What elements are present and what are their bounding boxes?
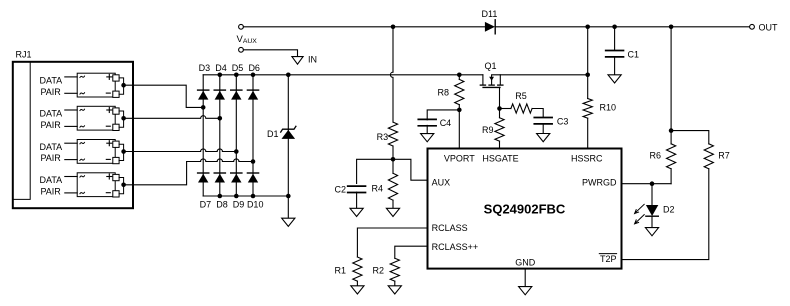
- transformer T2 (data pair 2): [77, 106, 126, 130]
- label D2: [663, 205, 675, 215]
- junction col3 bottom rail: [234, 194, 239, 199]
- wire R3 to AUX node: [392, 146, 394, 159]
- wire C1 to ground: [614, 57, 616, 75]
- wire stubs pair 1: [65, 77, 77, 93]
- terminal V_AUX (lower): [239, 47, 244, 52]
- capacitor C1: [606, 51, 624, 57]
- svg-text:R3: R3: [377, 132, 389, 142]
- wire RCLASS++ pin to R2: [395, 246, 428, 258]
- wire stubs pair 2: [65, 110, 77, 126]
- ground (C3): [537, 134, 550, 142]
- wire Q1 gate down: [499, 87, 501, 108]
- wire R9 to HSGATE pin: [499, 141, 501, 148]
- wire C3 to ground: [542, 124, 544, 134]
- ground (bridge return): [282, 218, 295, 226]
- svg-text:R10: R10: [600, 103, 617, 113]
- wire R6 bottom to PWRGD pin: [622, 169, 672, 184]
- node V_AUX label: [237, 34, 258, 45]
- svg-text:OUT: OUT: [759, 22, 779, 32]
- wire to C4: [427, 110, 459, 120]
- wire R3 column upper: [390, 27, 393, 122]
- wire HSSRC column: [587, 27, 589, 149]
- label D6: [248, 63, 260, 73]
- svg-text:RCLASS: RCLASS: [432, 223, 468, 233]
- wire RCLASS pin to R1: [357, 228, 427, 257]
- label D1: [267, 129, 279, 139]
- label D4: [215, 63, 227, 73]
- svg-text:RJ1: RJ1: [16, 50, 32, 60]
- svg-text:DATA: DATA: [40, 175, 63, 185]
- connector RJ1 box: [13, 62, 133, 208]
- label RJ1: [16, 50, 32, 60]
- svg-text:SQ24902FBC: SQ24902FBC: [484, 202, 566, 217]
- resistor R4: [388, 173, 397, 200]
- diode D6: [247, 90, 258, 100]
- diode D7: [198, 173, 209, 183]
- pin GND: [515, 258, 536, 268]
- label C4: [440, 118, 452, 128]
- wire C1 stem: [614, 27, 616, 51]
- RJ1 inner comb: [14, 63, 30, 200]
- label DATA PAIR 2: [40, 109, 63, 130]
- wire pair2 to bridge column2: [124, 116, 220, 119]
- resistor R6: [667, 131, 676, 169]
- svg-text:PAIR: PAIR: [40, 153, 61, 163]
- transformer T3 (data pair 3): [77, 140, 126, 164]
- svg-text:R9: R9: [482, 125, 494, 135]
- resistor R5: [500, 104, 533, 113]
- svg-text:T2P: T2P: [600, 254, 617, 264]
- wire AUX node to R4: [392, 159, 394, 173]
- wire VAUX rail to D11 anode: [243, 26, 485, 28]
- svg-text:C1: C1: [628, 50, 640, 60]
- wire D2 cathode to ground: [651, 216, 653, 227]
- resistor R9: [495, 109, 504, 142]
- label C3: [557, 117, 569, 127]
- svg-text:D8: D8: [216, 199, 228, 209]
- svg-text:DATA: DATA: [40, 109, 63, 119]
- wire bridge column 3: [235, 75, 237, 196]
- wire AUX node to AUX pin: [393, 159, 428, 180]
- wire bridge bottom rail: [203, 195, 288, 197]
- junction pair4/col4: [251, 159, 256, 164]
- diode D10: [247, 173, 258, 183]
- transformer T4 (data pair 4): [77, 173, 126, 197]
- label R3: [377, 132, 389, 142]
- svg-text:D11: D11: [482, 9, 498, 19]
- wire bridge column 4: [252, 75, 254, 196]
- label R1: [334, 265, 346, 275]
- junction R8/C4/VPORT: [457, 108, 462, 113]
- svg-text:VPORT: VPORT: [444, 153, 475, 163]
- resistor R1: [353, 257, 362, 281]
- svg-text:R7: R7: [718, 150, 730, 160]
- label R7: [718, 150, 730, 160]
- junction col2 top rail: [218, 73, 223, 78]
- transistor Q1: [480, 75, 503, 88]
- wire R8 bottom: [458, 75, 460, 149]
- wire C2 to ground: [356, 192, 358, 208]
- label D3: [199, 63, 211, 73]
- ground (C1): [608, 75, 621, 83]
- diode D9: [231, 173, 242, 183]
- zener diode D1: [281, 126, 296, 139]
- diode D11: [485, 20, 495, 34]
- svg-text:R1: R1: [334, 265, 346, 275]
- svg-text:DATA: DATA: [40, 142, 63, 152]
- label C2: [334, 184, 346, 194]
- pin HSGATE: [482, 153, 518, 163]
- capacitor C3: [534, 118, 552, 124]
- wire bridge column 1: [202, 75, 204, 196]
- wire D1 column: [287, 75, 289, 196]
- pin RCLASS: [432, 223, 468, 233]
- label SQ24902FBC: [484, 202, 566, 217]
- ground (C4): [421, 134, 434, 142]
- wire R5 to C3: [532, 109, 543, 118]
- IC U1 SQ24902FBC box: [428, 149, 622, 269]
- junction R3 top on VAUX rail: [391, 25, 396, 30]
- junction R8 top on IN rail: [457, 73, 462, 78]
- svg-text:PAIR: PAIR: [40, 187, 61, 197]
- pin AUX: [432, 177, 451, 187]
- junction AUX node: [391, 157, 396, 162]
- pin PWRGD: [582, 177, 617, 187]
- wire Q1 drain to HSSRC column: [492, 74, 588, 76]
- svg-text:D2: D2: [663, 205, 675, 215]
- svg-text:D5: D5: [232, 63, 244, 73]
- LED D2 arrows: [635, 204, 645, 224]
- wire IN rail into Q1 source: [482, 75, 484, 85]
- junction col4 top rail: [251, 73, 256, 78]
- net flag IN (arrow): [292, 57, 303, 65]
- svg-text:D3: D3: [199, 63, 211, 73]
- diode D5: [231, 90, 242, 100]
- wire D11 cathode to OUT terminal: [495, 26, 749, 28]
- svg-text:R6: R6: [649, 150, 661, 160]
- ground (R1): [351, 286, 364, 294]
- pin HSSRC: [571, 153, 603, 163]
- junction R6R7 on OUT rail: [669, 25, 674, 30]
- svg-text:VAUX: VAUX: [237, 34, 258, 45]
- resistor R8: [455, 79, 464, 104]
- junction HSSRC column on OUT rail: [585, 25, 590, 30]
- junction C1 on OUT rail: [612, 25, 617, 30]
- label D11: [482, 9, 498, 19]
- svg-text:DATA: DATA: [40, 76, 63, 86]
- label D7: [200, 199, 212, 209]
- wire IN rail (bridge top rail): [203, 74, 483, 76]
- svg-text:PAIR: PAIR: [40, 87, 61, 97]
- wire bridge column 2: [219, 75, 221, 196]
- junction D1 top: [286, 73, 291, 78]
- diode D4: [214, 90, 225, 100]
- svg-text:RCLASS++: RCLASS++: [432, 242, 479, 252]
- label R9: [482, 125, 494, 135]
- svg-text:R4: R4: [371, 184, 383, 194]
- terminal V_AUX (upper): [239, 24, 244, 29]
- label DATA PAIR 4: [40, 175, 63, 196]
- svg-text:Q1: Q1: [485, 61, 497, 71]
- svg-text:R2: R2: [372, 265, 384, 275]
- pin VPORT: [444, 153, 475, 163]
- ground (R2): [388, 286, 401, 294]
- label C1: [628, 50, 640, 60]
- diode D8: [214, 173, 225, 183]
- junction col4 bottom rail: [251, 194, 256, 199]
- wire D2 anode: [651, 184, 653, 205]
- junction col3 top rail: [234, 73, 239, 78]
- svg-text:R5: R5: [515, 91, 527, 101]
- svg-text:GND: GND: [515, 258, 536, 268]
- wire pair1 to bridge column1: [124, 85, 204, 107]
- junction pair2/col2: [218, 116, 223, 121]
- label R4: [371, 184, 383, 194]
- ground (R4): [386, 208, 399, 216]
- label DATA PAIR 3: [40, 142, 63, 163]
- svg-text:IN: IN: [308, 54, 317, 64]
- label R6: [649, 150, 661, 160]
- label R2: [372, 265, 384, 275]
- svg-text:HSSRC: HSSRC: [571, 153, 603, 163]
- wire split to R7 top: [671, 131, 709, 144]
- capacitor C4: [418, 119, 436, 125]
- resistor R3: [388, 122, 397, 146]
- resistor R2: [390, 258, 399, 281]
- transformer T1 (data pair 1): [77, 73, 126, 97]
- diode D3: [198, 90, 209, 100]
- svg-text:D1: D1: [267, 129, 279, 139]
- svg-text:D4: D4: [215, 63, 227, 73]
- LED D2: [646, 205, 658, 216]
- junction pair3/col3: [234, 149, 239, 154]
- terminal OUT: [750, 24, 755, 29]
- label IN: [308, 54, 317, 64]
- label OUT: [759, 22, 779, 32]
- wire C4 to ground: [426, 125, 428, 133]
- svg-text:C4: C4: [440, 118, 452, 128]
- svg-text:C3: C3: [557, 117, 569, 127]
- label R8: [437, 87, 449, 97]
- junction col2 bottom rail: [218, 194, 223, 199]
- wire OUT rail down to R6/R7 split: [670, 27, 672, 131]
- wire R7 bottom to T2P: [622, 169, 709, 260]
- junction pair1/col1: [201, 105, 206, 110]
- resistor R10: [583, 99, 592, 119]
- pin T2P (active low): [599, 254, 616, 264]
- resistor R7: [704, 144, 713, 169]
- label D8: [216, 199, 228, 209]
- wire VAUX lower to IN flag: [243, 50, 297, 57]
- svg-text:C2: C2: [334, 184, 346, 194]
- label Q1: [485, 61, 497, 71]
- wire R1 to ground: [356, 281, 358, 286]
- junction R6/R7 split: [669, 128, 674, 133]
- svg-text:HSGATE: HSGATE: [482, 153, 518, 163]
- svg-text:D6: D6: [248, 63, 260, 73]
- label D9: [233, 199, 245, 209]
- junction gate/R9/R5: [497, 106, 502, 111]
- ground (D2): [645, 228, 658, 236]
- wire R2 to ground: [394, 281, 396, 286]
- junction D2 tap: [650, 181, 655, 186]
- wire to bridge ground: [287, 196, 289, 218]
- svg-text:AUX: AUX: [432, 177, 451, 187]
- wire stubs pair 3: [65, 143, 77, 159]
- label R5: [515, 91, 527, 101]
- svg-text:PWRGD: PWRGD: [582, 177, 617, 187]
- svg-text:D7: D7: [200, 199, 212, 209]
- label DATA PAIR 1: [40, 76, 63, 97]
- label R10: [600, 103, 617, 113]
- ground (GND pin): [519, 287, 532, 295]
- svg-text:D10: D10: [247, 199, 264, 209]
- wire stubs pair 4: [65, 177, 77, 193]
- wire GND pin to ground: [524, 269, 526, 287]
- svg-text:D9: D9: [233, 199, 245, 209]
- wire pair4 to bridge column4: [124, 159, 253, 185]
- wire pair3 to bridge column3: [124, 149, 237, 152]
- label D10: [247, 199, 264, 209]
- svg-text:R8: R8: [437, 87, 449, 97]
- junction D1 bottom / ground tap: [286, 194, 291, 199]
- label D5: [232, 63, 244, 73]
- pin RCLASS++: [432, 242, 479, 252]
- capacitor C2: [348, 186, 366, 192]
- junction drain/HSSRC: [585, 73, 590, 78]
- ground (C2): [350, 208, 363, 216]
- wire R4 to ground: [392, 200, 394, 208]
- wire AUX node to C2: [357, 159, 393, 183]
- svg-text:PAIR: PAIR: [40, 120, 61, 130]
